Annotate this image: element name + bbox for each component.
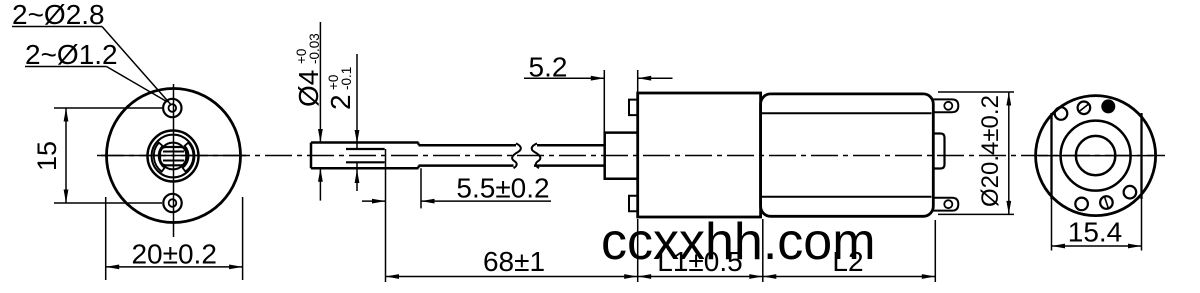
small hole lower-right bbox=[1124, 186, 1137, 199]
dimension Ø4 +0/-0.03 lines bbox=[319, 22, 321, 143]
right view middle circle bbox=[1061, 121, 1131, 191]
top mounting hole bbox=[163, 99, 181, 117]
dimension 5.2 line bbox=[524, 77, 604, 79]
svg-text:2: 2 bbox=[325, 94, 356, 110]
boss left arc slot bbox=[154, 143, 165, 172]
shaft step bottom bbox=[417, 166, 419, 169]
dimension 5.5±0.2 extension lines bbox=[385, 149, 387, 282]
leader 2~Ø1.2 bbox=[25, 66, 107, 68]
filled hole upper-right bbox=[1101, 99, 1115, 113]
center boss outer circle bbox=[148, 131, 199, 182]
shaft flat top line bbox=[346, 148, 385, 150]
gearbox body bbox=[638, 93, 761, 217]
break squiggle left bbox=[512, 143, 521, 168]
shaft flat bottom line bbox=[346, 161, 385, 163]
motor crimp line bottom bbox=[762, 196, 932, 198]
label Ø20.4±0.2 (rotated) bbox=[977, 95, 1004, 207]
small hole upper-left bbox=[1055, 107, 1068, 120]
bottom dimension extension lines bbox=[637, 219, 639, 282]
boss right arc slot bbox=[183, 143, 194, 172]
center boss inner circle bbox=[160, 143, 187, 170]
shaft thin top edge bbox=[419, 144, 517, 147]
leader 2~Ø2.8 bbox=[12, 26, 102, 28]
dimension 2 +0/-0.1 lines bbox=[356, 54, 358, 149]
svg-text:20±0.2: 20±0.2 bbox=[131, 239, 216, 270]
bottom mounting hole bbox=[163, 194, 181, 212]
screw lower-center bbox=[1100, 196, 1113, 209]
gearbox ear top bbox=[629, 100, 638, 116]
svg-text:5.5±0.2: 5.5±0.2 bbox=[456, 173, 549, 204]
svg-text:-0.03: -0.03 bbox=[307, 33, 322, 64]
dimension 5.2 extension lines bbox=[603, 70, 605, 133]
svg-text:15.4: 15.4 bbox=[1068, 217, 1123, 248]
right view flat chord right bbox=[1140, 113, 1142, 199]
label Ø4 +0 -0.03 (rotated) bbox=[293, 33, 324, 107]
right view flat chord left bbox=[1050, 113, 1052, 199]
shaft flat line lower bbox=[163, 160, 184, 162]
main horizontal centerline axis bbox=[97, 155, 1165, 157]
motor crimp line top bbox=[762, 112, 932, 114]
label 2 +0 -0.1 (rotated) bbox=[325, 67, 356, 110]
dimension Ø20.4 extension lines bbox=[938, 91, 1014, 93]
small hole lower-left bbox=[1075, 198, 1088, 211]
gearbox ear bottom bbox=[629, 196, 638, 212]
screw upper-center bbox=[1078, 102, 1091, 115]
shaft tip edge bbox=[310, 143, 313, 169]
terminal top bbox=[933, 99, 958, 112]
shaft top edge Ø4 bbox=[311, 141, 419, 144]
dimension 20±0.2 line bbox=[106, 266, 243, 268]
dimension 15 line bbox=[65, 108, 67, 203]
right view outer circle bbox=[1036, 96, 1156, 216]
svg-text:2~Ø1.2: 2~Ø1.2 bbox=[25, 39, 118, 70]
svg-text:Ø20.4±0.2: Ø20.4±0.2 bbox=[977, 95, 1004, 207]
bottom dimension line 68 / L1 / L2 bbox=[386, 276, 936, 278]
svg-text:-0.1: -0.1 bbox=[339, 67, 354, 90]
motor rear bearing bump bbox=[933, 134, 944, 169]
shaft flat line upper bbox=[163, 151, 184, 153]
terminal bottom bbox=[933, 198, 958, 211]
dimension 15.4 line bbox=[1052, 245, 1142, 247]
front bearing boss bbox=[605, 133, 638, 179]
dimension 15 extension line top bbox=[54, 107, 162, 109]
shaft step top bbox=[417, 143, 419, 146]
left view vertical centerline bbox=[173, 84, 175, 237]
dimension 20±0.2 extension lines bbox=[105, 197, 107, 280]
dimension 5.5±0.2 line bbox=[362, 200, 386, 202]
svg-text:68±1: 68±1 bbox=[483, 246, 545, 277]
svg-text:Ø4: Ø4 bbox=[293, 70, 324, 107]
shaft thin bottom edge bbox=[419, 164, 514, 167]
break squiggle right bbox=[532, 143, 541, 168]
svg-text:2~Ø2.8: 2~Ø2.8 bbox=[12, 0, 105, 30]
svg-text:15: 15 bbox=[32, 141, 62, 171]
shaft cross-section (rounded rect with flats) bbox=[160, 147, 187, 165]
svg-text:5.2: 5.2 bbox=[529, 52, 568, 83]
dimension Ø20.4 line bbox=[1008, 92, 1010, 214]
left view outer circle (gearbox face Ø20) bbox=[107, 89, 241, 223]
right view inner circle bbox=[1076, 136, 1115, 175]
shaft bottom edge Ø4 bbox=[311, 167, 419, 170]
center boss second circle bbox=[152, 135, 195, 178]
label 15 (rotated) bbox=[32, 141, 62, 171]
motor can body bbox=[761, 94, 934, 216]
dimension 15 extension line bottom bbox=[54, 202, 162, 204]
svg-text:ccxxhh.com: ccxxhh.com bbox=[601, 213, 876, 271]
